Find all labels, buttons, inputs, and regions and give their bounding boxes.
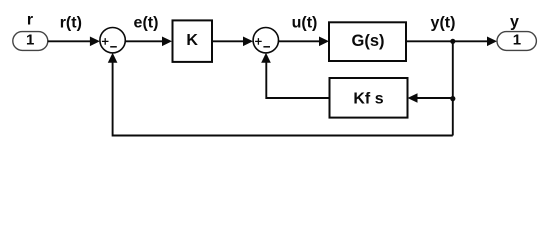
svg-text:u(t): u(t) <box>292 15 318 32</box>
arrowhead into sum junction 1 <box>90 37 100 47</box>
arrowhead into gain K <box>162 37 172 47</box>
wire r to sum junction <box>48 40 92 42</box>
node dot at Kf s input <box>450 96 455 101</box>
svg-text:y: y <box>510 13 519 30</box>
gain block K <box>173 20 213 62</box>
inner feedback wire Kf s to sum2 <box>266 62 329 99</box>
summing junction 2 <box>253 28 278 53</box>
wire G(s) to output port <box>406 40 489 42</box>
svg-text:e(t): e(t) <box>134 14 159 31</box>
svg-text:Kf s: Kf s <box>353 91 383 108</box>
arrowhead into G(s) <box>319 37 329 47</box>
outer feedback wire bottom <box>113 62 453 136</box>
wire sum2 to G(s) <box>279 40 322 42</box>
svg-text:1: 1 <box>513 32 521 49</box>
arrowhead into sum1 bottom (pointing up) <box>108 53 118 63</box>
arrowhead into Kf s (pointing left) <box>408 93 418 103</box>
svg-text:1: 1 <box>26 32 34 49</box>
node dot y <box>450 39 455 44</box>
derivative feedback block Kf s <box>330 78 408 118</box>
arrowhead into output port <box>487 37 497 47</box>
svg-text:r: r <box>27 12 33 29</box>
transfer function block G(s) <box>329 22 406 61</box>
feedback riser wire from node y down <box>452 41 454 135</box>
input port block 1 (r) <box>13 32 48 51</box>
output port block 1 (y) <box>497 32 536 51</box>
arrowhead into sum2 bottom (pointing up) <box>261 53 271 63</box>
arrowhead into sum junction 2 <box>243 37 253 47</box>
wire K to sum junction 2 <box>212 40 245 42</box>
wire sum1 to gain K <box>125 40 164 42</box>
svg-text:y(t): y(t) <box>431 14 456 31</box>
svg-text:G(s): G(s) <box>352 32 385 50</box>
wire node to Kf s <box>416 97 453 99</box>
svg-text:r(t): r(t) <box>60 14 82 31</box>
summing junction 1 <box>100 28 125 53</box>
svg-text:K: K <box>186 32 198 49</box>
